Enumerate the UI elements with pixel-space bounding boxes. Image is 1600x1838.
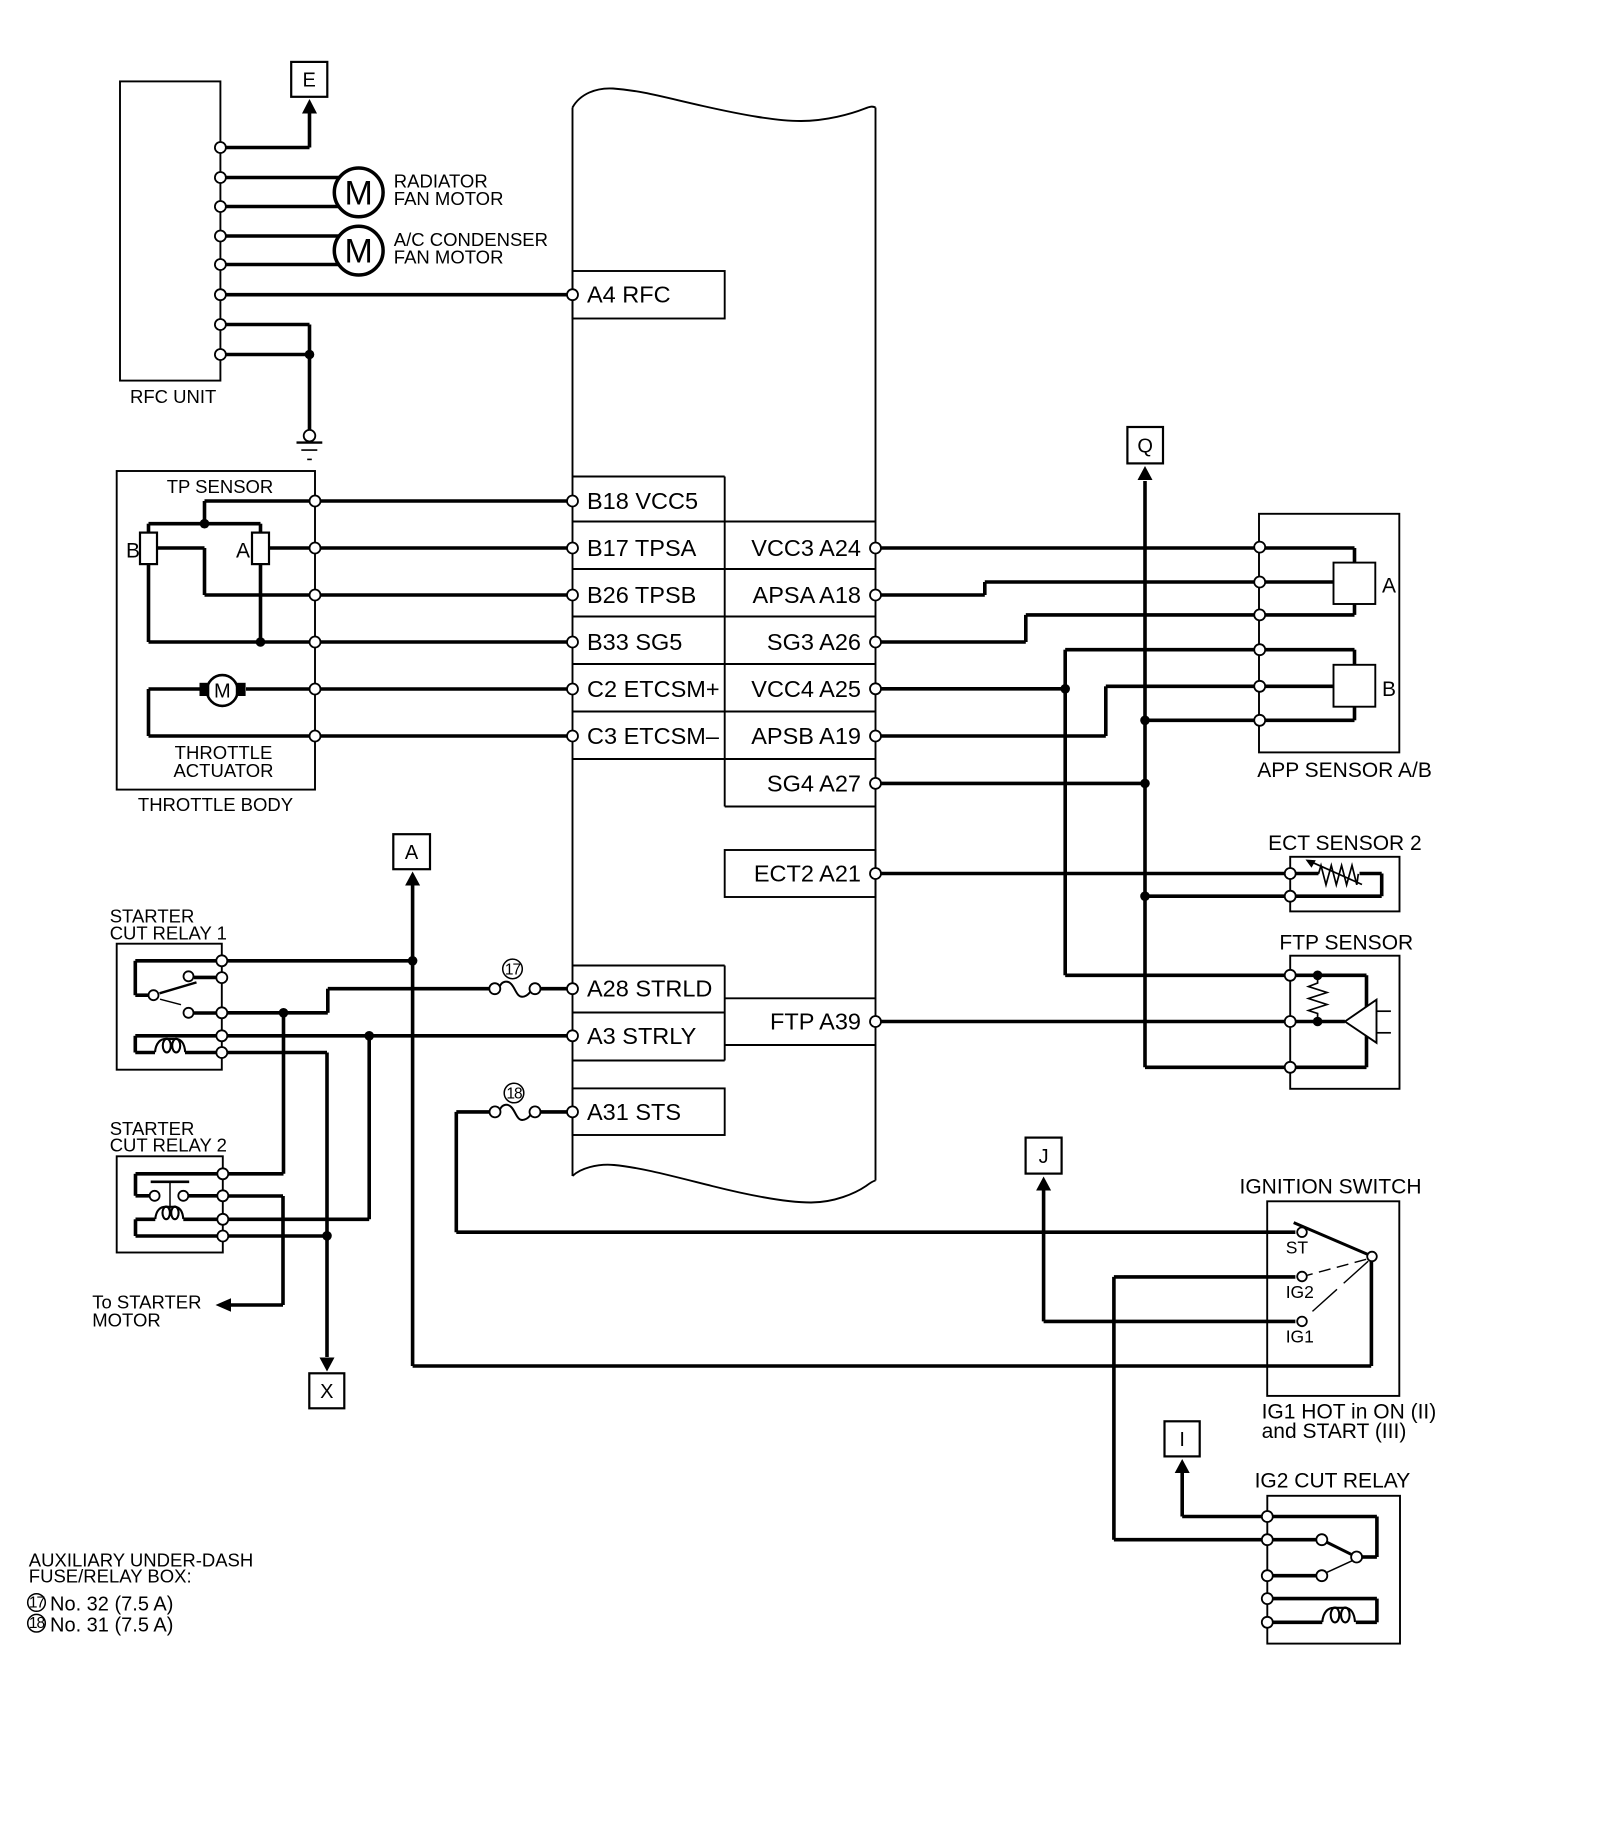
svg-text:B33 SG5: B33 SG5 xyxy=(587,629,682,655)
svg-text:RFC UNIT: RFC UNIT xyxy=(130,386,216,407)
svg-text:Q: Q xyxy=(1137,435,1153,457)
svg-text:APSA A18: APSA A18 xyxy=(753,582,861,608)
svg-text:THROTTLE BODY: THROTTLE BODY xyxy=(138,794,293,815)
svg-text:and START (III): and START (III) xyxy=(1262,1420,1407,1443)
svg-text:VCC3 A24: VCC3 A24 xyxy=(751,535,861,561)
svg-text:J: J xyxy=(1039,1146,1049,1168)
svg-text:CUT RELAY 2: CUT RELAY 2 xyxy=(110,1135,227,1156)
svg-text:FAN MOTOR: FAN MOTOR xyxy=(394,246,504,267)
svg-text:A31 STS: A31 STS xyxy=(587,1099,681,1125)
svg-text:IGNITION SWITCH: IGNITION SWITCH xyxy=(1240,1175,1422,1198)
svg-text:17: 17 xyxy=(505,961,521,978)
svg-text:A: A xyxy=(405,842,419,864)
svg-text:B26 TPSB: B26 TPSB xyxy=(587,582,696,608)
svg-text:M: M xyxy=(214,681,231,703)
svg-text:C2 ETCSM+: C2 ETCSM+ xyxy=(587,676,720,702)
svg-text:C3 ETCSM–: C3 ETCSM– xyxy=(587,723,720,749)
svg-text:FUSE/RELAY BOX:: FUSE/RELAY BOX: xyxy=(29,1566,192,1587)
svg-text:No. 31 (7.5 A): No. 31 (7.5 A) xyxy=(50,1614,173,1636)
svg-text:A4 RFC: A4 RFC xyxy=(587,282,671,308)
svg-text:17: 17 xyxy=(29,1595,45,1612)
svg-text:APSB A19: APSB A19 xyxy=(751,723,861,749)
svg-text:E: E xyxy=(303,70,316,92)
svg-text:CUT RELAY 1: CUT RELAY 1 xyxy=(110,923,227,944)
svg-text:M: M xyxy=(345,233,373,271)
svg-text:SG3 A26: SG3 A26 xyxy=(767,629,861,655)
svg-text:M: M xyxy=(345,174,373,212)
svg-text:MOTOR: MOTOR xyxy=(92,1310,161,1331)
svg-text:B: B xyxy=(126,540,140,563)
svg-text:IG1: IG1 xyxy=(1286,1327,1314,1347)
svg-text:18: 18 xyxy=(506,1086,522,1103)
svg-text:APP SENSOR A/B: APP SENSOR A/B xyxy=(1257,759,1432,782)
svg-text:ACTUATOR: ACTUATOR xyxy=(173,760,273,781)
svg-text:A: A xyxy=(236,540,250,563)
svg-text:I: I xyxy=(1179,1429,1185,1451)
svg-text:X: X xyxy=(320,1381,333,1403)
svg-text:TP SENSOR: TP SENSOR xyxy=(167,476,274,497)
svg-text:IG2 CUT RELAY: IG2 CUT RELAY xyxy=(1255,1469,1411,1492)
svg-text:SG4 A27: SG4 A27 xyxy=(767,770,861,796)
svg-text:FTP A39: FTP A39 xyxy=(770,1009,861,1035)
svg-text:ECT2 A21: ECT2 A21 xyxy=(754,861,861,887)
svg-text:B: B xyxy=(1382,678,1396,701)
svg-text:A3 STRLY: A3 STRLY xyxy=(587,1023,697,1049)
svg-text:FTP SENSOR: FTP SENSOR xyxy=(1279,931,1413,954)
svg-text:VCC4 A25: VCC4 A25 xyxy=(751,676,861,702)
svg-text:B17 TPSA: B17 TPSA xyxy=(587,535,697,561)
svg-text:FAN MOTOR: FAN MOTOR xyxy=(394,188,504,209)
svg-text:No. 32 (7.5 A): No. 32 (7.5 A) xyxy=(50,1594,173,1616)
svg-text:IG2: IG2 xyxy=(1286,1282,1314,1302)
svg-text:18: 18 xyxy=(29,1615,45,1632)
svg-text:ECT SENSOR 2: ECT SENSOR 2 xyxy=(1268,832,1422,855)
svg-text:B18 VCC5: B18 VCC5 xyxy=(587,488,698,514)
svg-text:A: A xyxy=(1382,574,1396,597)
svg-text:ST: ST xyxy=(1286,1238,1309,1258)
svg-text:A28 STRLD: A28 STRLD xyxy=(587,976,712,1002)
